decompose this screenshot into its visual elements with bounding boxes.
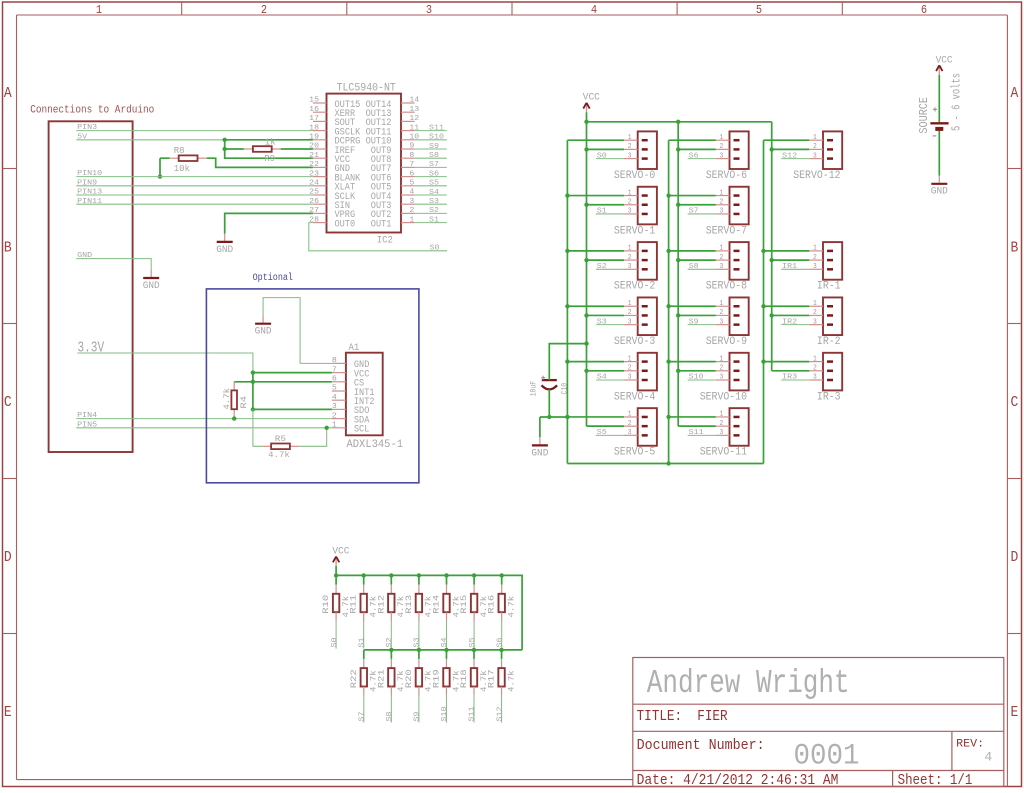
net S11 wire xyxy=(688,434,716,436)
battery SOURCE minus sign xyxy=(933,135,937,137)
SERVO-12 pin 1 stub xyxy=(809,139,823,141)
svg-text:IC2: IC2 xyxy=(377,235,393,246)
svg-text:S9: S9 xyxy=(689,318,699,326)
svg-text:S6: S6 xyxy=(429,170,439,178)
svg-text:6: 6 xyxy=(332,376,337,384)
resistor R5 xyxy=(262,445,271,447)
svg-text:2: 2 xyxy=(813,254,817,262)
resistor R20 xyxy=(418,650,420,659)
junction VCC rail row 3 xyxy=(676,313,680,317)
svg-text:2: 2 xyxy=(628,198,632,206)
IR-1 pin 1 stub xyxy=(809,250,823,252)
svg-text:S4: S4 xyxy=(441,637,449,647)
column 2 pin1 wire row 5 xyxy=(669,416,716,418)
junction VCC rail at R10 xyxy=(334,573,338,577)
net S4 wire xyxy=(596,379,624,381)
svg-text:SERVO-0: SERVO-0 xyxy=(614,170,655,182)
resistor R11 xyxy=(363,575,365,584)
svg-text:OUT0: OUT0 xyxy=(335,218,356,230)
resistor R22 xyxy=(363,650,365,659)
svg-text:4: 4 xyxy=(409,189,414,197)
svg-text:SERVO-12: SERVO-12 xyxy=(793,170,840,182)
net PIN9 wire to IC2 XLAT xyxy=(76,185,313,187)
SERVO-1 pin 1 stub xyxy=(624,195,638,197)
svg-text:16: 16 xyxy=(309,106,319,114)
SERVO-10 pin 3 stub xyxy=(716,379,730,381)
connector SERVO-2 body xyxy=(638,242,657,280)
svg-text:10uF: 10uF xyxy=(528,381,538,397)
wire vertical rail VCC-CS-SDO xyxy=(252,373,254,410)
net S7 wire xyxy=(415,166,447,168)
svg-text:25: 25 xyxy=(309,189,319,197)
svg-text:S10: S10 xyxy=(441,706,449,721)
svg-text:1: 1 xyxy=(628,189,632,197)
junction rail at SDO row xyxy=(251,407,255,411)
IC A1 ADXL345 body xyxy=(346,353,383,436)
column 3 pin2 wire row 3 xyxy=(772,314,810,316)
column 2 pin1 wire row 2 xyxy=(669,250,716,252)
svg-text:R21: R21 xyxy=(377,669,386,688)
SERVO-6 pin 1 contact bar xyxy=(734,139,740,142)
net S0 wire from IC2 OUT0 xyxy=(309,223,447,251)
svg-text:1: 1 xyxy=(813,300,817,308)
IR-3 pin 1 stub xyxy=(809,361,823,363)
net S1 wire xyxy=(596,213,624,215)
net S4 wire xyxy=(415,194,447,196)
IC2 pin 11 (OUT11) stub and number xyxy=(401,130,415,132)
svg-text:SERVO-5: SERVO-5 xyxy=(614,447,655,459)
net S8 wire xyxy=(415,157,447,159)
svg-text:23: 23 xyxy=(309,170,319,178)
svg-text:Connections to Arduino: Connections to Arduino xyxy=(30,105,154,117)
svg-text:GND: GND xyxy=(255,327,272,338)
SERVO-12 pin 2 stub xyxy=(809,148,823,150)
SERVO-1 pin 2 contact bar xyxy=(642,204,648,207)
resistor R10 xyxy=(335,575,337,584)
IC2 pin 24 (XLAT) stub and number xyxy=(313,185,327,187)
connector SERVO-8 body xyxy=(730,242,749,280)
wire 3.3V rail to A1 VCC xyxy=(253,372,332,374)
svg-text:SERVO-10: SERVO-10 xyxy=(700,391,747,403)
junction GND rail row 1 xyxy=(666,193,670,197)
net PIN3 wire to IC2 GSCLK xyxy=(76,130,313,132)
IC2 pin 8 (OUT8) stub and number xyxy=(401,157,415,159)
svg-text:2: 2 xyxy=(720,420,724,428)
svg-text:3: 3 xyxy=(628,374,632,382)
svg-text:R13: R13 xyxy=(405,595,414,614)
connector SERVO-4 body xyxy=(638,353,657,391)
svg-text:20: 20 xyxy=(309,143,319,151)
column 1 pin2 wire row 4 xyxy=(587,370,625,372)
IR-1 pin 1 contact bar xyxy=(827,250,833,253)
SERVO-6 pin 3 contact bar xyxy=(734,157,740,160)
svg-text:SERVO-6: SERVO-6 xyxy=(706,170,747,182)
net 5V wire xyxy=(76,139,224,141)
SERVO-4 pin 2 stub xyxy=(624,370,638,372)
svg-text:D: D xyxy=(1011,548,1019,566)
GND bus along bottom of servo field xyxy=(567,463,763,465)
svg-text:R11: R11 xyxy=(350,595,359,614)
resistor R12 xyxy=(390,575,392,584)
net S2 stub wire xyxy=(390,621,392,648)
junction VCC at column1 rail xyxy=(584,120,588,124)
title block xyxy=(633,658,1004,787)
net S0 wire xyxy=(596,158,624,160)
svg-text:2: 2 xyxy=(813,309,817,317)
svg-text:1: 1 xyxy=(628,411,632,419)
svg-text:VCC: VCC xyxy=(936,54,953,66)
svg-text:18: 18 xyxy=(309,124,319,132)
SERVO-8 pin 2 contact bar xyxy=(734,259,740,262)
net IR1 wire xyxy=(781,268,809,270)
junction VCC rail row 0 xyxy=(584,147,588,151)
junction VCC at column2 rail xyxy=(676,120,680,124)
svg-text:3: 3 xyxy=(720,429,724,437)
junction GND rail row 2 xyxy=(761,249,765,253)
junction rail at VCC row xyxy=(251,370,255,374)
net S11 stub wire xyxy=(473,696,475,723)
svg-text:SERVO-8: SERVO-8 xyxy=(706,281,747,293)
column 1 pin1 wire row 2 xyxy=(567,250,624,252)
SERVO-2 pin 1 contact bar xyxy=(642,250,648,253)
svg-text:S12: S12 xyxy=(782,152,797,160)
svg-text:IR1: IR1 xyxy=(782,263,797,271)
svg-text:Andrew Wright: Andrew Wright xyxy=(647,664,850,702)
connector SERVO-12 body xyxy=(823,131,842,169)
net PIN4 wire to ADXL345 SDA xyxy=(76,418,332,420)
IR-2 pin 2 contact bar xyxy=(827,314,833,317)
junction row2 rail at R17 xyxy=(499,648,503,652)
SERVO-11 pin 2 stub xyxy=(716,425,730,427)
svg-text:3: 3 xyxy=(813,374,817,382)
resistor array top VCC rail xyxy=(336,575,522,650)
SERVO-12 pin 2 contact bar xyxy=(827,148,833,151)
resistor R19 xyxy=(445,650,447,659)
svg-text:1: 1 xyxy=(332,422,337,430)
column 1 VCC rail xyxy=(586,122,588,426)
wire rail to A1 CS xyxy=(234,381,332,383)
SERVO-8 pin 1 stub xyxy=(716,250,730,252)
svg-text:R12: R12 xyxy=(377,595,386,614)
SERVO-11 pin 1 stub xyxy=(716,416,730,418)
column 3 pin2 wire row 0 xyxy=(772,148,810,150)
svg-text:SERVO-2: SERVO-2 xyxy=(614,281,655,293)
svg-text:5 - 6 volts: 5 - 6 volts xyxy=(950,73,964,131)
IR-3 pin 3 contact bar xyxy=(827,379,833,382)
net IR3 wire xyxy=(781,379,809,381)
svg-text:1: 1 xyxy=(720,355,724,363)
IC2 pin 16 (XERR) stub and number xyxy=(313,111,327,113)
junction VCC rail row 0 xyxy=(770,147,774,151)
svg-text:1: 1 xyxy=(813,134,817,142)
battery SOURCE plus sign xyxy=(933,108,937,110)
junction 5V at DCPRG row xyxy=(223,138,227,142)
svg-text:1: 1 xyxy=(813,245,817,253)
svg-text:S7: S7 xyxy=(429,161,439,169)
svg-text:SERVO-4: SERVO-4 xyxy=(614,391,656,403)
SERVO-5 pin 3 contact bar xyxy=(642,434,648,437)
svg-text:B: B xyxy=(1011,239,1019,257)
junction VCC rail row 3 xyxy=(584,313,588,317)
svg-text:R4: R4 xyxy=(240,396,249,409)
column 2 pin2 wire row 3 xyxy=(678,314,716,316)
SERVO-3 pin 2 contact bar xyxy=(642,314,648,317)
svg-text:5: 5 xyxy=(409,180,414,188)
column 2 pin2 wire row 0 xyxy=(678,148,716,150)
SERVO-3 pin 1 stub xyxy=(624,305,638,307)
svg-text:6: 6 xyxy=(409,170,414,178)
svg-text:2: 2 xyxy=(720,254,724,262)
junction row2 rail at R21 xyxy=(389,648,393,652)
svg-text:3: 3 xyxy=(720,318,724,326)
SERVO-9 pin 3 stub xyxy=(716,324,730,326)
IC2 pin 1 (OUT1) stub and number xyxy=(401,222,415,224)
junction VCC rail row 4 xyxy=(676,369,680,373)
svg-text:1: 1 xyxy=(409,216,414,224)
svg-text:E: E xyxy=(4,703,12,721)
svg-text:VCC: VCC xyxy=(583,92,600,104)
resistor R13 xyxy=(418,575,420,584)
svg-text:PIN3: PIN3 xyxy=(77,124,97,132)
SERVO-10 pin 1 contact bar xyxy=(734,360,740,363)
net S4 stub wire xyxy=(446,621,448,648)
SERVO-8 pin 3 contact bar xyxy=(734,268,740,271)
junction C10 on GND wire xyxy=(547,415,551,419)
svg-text:S8: S8 xyxy=(689,263,699,271)
svg-text:1: 1 xyxy=(720,189,724,197)
IR-2 pin 1 stub xyxy=(809,305,823,307)
svg-text:3.3V: 3.3V xyxy=(77,340,104,356)
IR-1 pin 3 stub xyxy=(809,268,823,270)
IC2 pin 15 (OUT15) stub and number xyxy=(313,102,327,104)
svg-text:3: 3 xyxy=(628,152,632,160)
svg-text:GND: GND xyxy=(531,448,548,459)
Arduino connections box xyxy=(49,121,133,452)
net S6 stub wire xyxy=(501,621,503,648)
SERVO-0 pin 2 stub xyxy=(624,148,638,150)
junction GND rail row 5 xyxy=(666,415,670,419)
svg-text:S3: S3 xyxy=(597,318,607,326)
net S2 wire xyxy=(596,268,624,270)
SERVO-6 pin 2 contact bar xyxy=(734,148,740,151)
column 1 pin2 wire row 3 xyxy=(587,314,625,316)
svg-text:S9: S9 xyxy=(429,143,439,151)
svg-text:17: 17 xyxy=(309,115,319,123)
svg-text:2: 2 xyxy=(628,420,632,428)
svg-text:GND: GND xyxy=(143,281,160,292)
svg-text:S0: S0 xyxy=(430,245,440,253)
svg-text:TITLE: FIER: TITLE: FIER xyxy=(637,709,728,725)
capacitor C10 wire to VCC rail xyxy=(549,344,586,381)
svg-text:R16: R16 xyxy=(488,595,497,614)
svg-text:S5: S5 xyxy=(469,637,477,647)
SERVO-11 pin 3 contact bar xyxy=(734,434,740,437)
svg-text:3: 3 xyxy=(720,263,724,271)
net PIN10 wire to IC2 BLANK xyxy=(76,176,313,178)
capacitor C10 wire to GND xyxy=(548,389,550,417)
wire down to ground symbol xyxy=(539,417,541,437)
SERVO-0 pin 2 contact bar xyxy=(642,148,648,151)
svg-text:C10: C10 xyxy=(560,383,570,395)
svg-text:4: 4 xyxy=(984,750,992,765)
svg-text:3: 3 xyxy=(628,263,632,271)
SERVO-0 pin 1 contact bar xyxy=(642,139,648,142)
net S5 wire xyxy=(415,185,447,187)
junction VCC rail at R14 xyxy=(444,573,448,577)
wire ground branch to GND rail xyxy=(540,416,568,418)
SERVO-2 pin 1 stub xyxy=(624,250,638,252)
net S2 wire xyxy=(415,212,447,214)
net S3 wire xyxy=(596,324,624,326)
svg-text:9: 9 xyxy=(409,143,414,151)
svg-text:1: 1 xyxy=(813,355,817,363)
IR-2 pin 2 stub xyxy=(809,314,823,316)
svg-text:S6: S6 xyxy=(496,637,504,647)
net PIN11 wire to IC2 SIN xyxy=(76,203,313,205)
wire R5 to PIN5 net xyxy=(299,428,327,447)
SERVO-3 pin 3 stub xyxy=(624,324,638,326)
resistor R4 xyxy=(233,381,235,390)
junction R4 bottom on PIN4 net xyxy=(232,416,236,420)
SERVO-4 pin 1 contact bar xyxy=(642,360,648,363)
SERVO-5 pin 1 contact bar xyxy=(642,416,648,419)
junction GND branch at rail xyxy=(565,415,569,419)
ground symbol of servo field xyxy=(539,437,541,444)
resistor R9 xyxy=(244,148,253,150)
SERVO-5 pin 1 stub xyxy=(624,416,638,418)
svg-text:R8: R8 xyxy=(174,145,185,156)
SERVO-4 pin 2 contact bar xyxy=(642,370,648,373)
IC2 pin 5 (OUT5) stub and number xyxy=(401,185,415,187)
svg-text:1: 1 xyxy=(720,411,724,419)
net S9 stub wire xyxy=(418,696,420,723)
svg-text:A: A xyxy=(4,84,13,102)
net S3 wire xyxy=(415,203,447,205)
column 2 GND rail xyxy=(668,140,670,463)
IC2 pin 20 (IREF) stub and number xyxy=(313,148,327,150)
svg-text:REV:: REV: xyxy=(956,738,984,750)
svg-text:PIN11: PIN11 xyxy=(77,198,102,206)
IC2 pin 10 (OUT10) stub and number xyxy=(401,139,415,141)
net PIN5 wire to ADXL345 SCL xyxy=(76,427,332,429)
A1 pin 3 (SDO) stub and number xyxy=(332,408,346,410)
wire ADXL345 GND pin to ground xyxy=(263,298,332,364)
column 3 pin1 wire row 0 xyxy=(764,139,810,141)
SERVO-5 pin 2 stub xyxy=(624,425,638,427)
SERVO-11 pin 3 stub xyxy=(716,434,730,436)
SERVO-7 pin 1 stub xyxy=(716,195,730,197)
svg-text:3: 3 xyxy=(813,318,817,326)
svg-text:2: 2 xyxy=(720,365,724,373)
IC2 pin 22 (GND) stub and number xyxy=(313,166,327,168)
svg-text:2: 2 xyxy=(628,143,632,151)
svg-text:PIN9: PIN9 xyxy=(77,179,97,187)
SERVO-9 pin 1 contact bar xyxy=(734,305,740,308)
svg-text:3: 3 xyxy=(628,429,632,437)
junction C10 on VCC rail xyxy=(584,341,588,345)
IR-1 pin 3 contact bar xyxy=(827,268,833,271)
svg-text:GND: GND xyxy=(77,252,92,260)
wire IC2 VPRG to ground xyxy=(225,213,313,233)
svg-text:7: 7 xyxy=(409,161,414,169)
connector SERVO-10 body xyxy=(730,353,749,391)
column 3 pin1 wire row 4 xyxy=(764,361,810,363)
SERVO-6 pin 3 stub xyxy=(716,158,730,160)
svg-text:26: 26 xyxy=(309,198,319,206)
svg-text:SERVO-11: SERVO-11 xyxy=(700,447,748,459)
SERVO-0 pin 3 stub xyxy=(624,158,638,160)
net S3 stub wire xyxy=(418,621,420,648)
IR-2 pin 3 stub xyxy=(809,324,823,326)
svg-text:15: 15 xyxy=(309,97,319,105)
column 3 pin1 wire row 3 xyxy=(764,305,810,307)
resistor R14 xyxy=(446,575,448,584)
SERVO-1 pin 1 contact bar xyxy=(642,194,648,197)
IC2 pin 21 (VCC) stub and number xyxy=(313,157,327,159)
connector SERVO-3 body xyxy=(638,297,657,335)
svg-text:Date: 4/21/2012 2:46:31 AM: Date: 4/21/2012 2:46:31 AM xyxy=(637,773,839,789)
wire R8 left to PIN10 net xyxy=(160,157,170,159)
SERVO-7 pin 2 stub xyxy=(716,204,730,206)
IC2 pin 2 (OUT2) stub and number xyxy=(401,212,415,214)
column 2 pin1 wire row 1 xyxy=(669,195,716,197)
junction VCC rail row 3 xyxy=(770,313,774,317)
svg-text:S6: S6 xyxy=(689,152,699,160)
junction R8 on PIN10 net xyxy=(158,174,162,178)
svg-text:8: 8 xyxy=(332,357,337,365)
svg-text:R5: R5 xyxy=(275,434,286,444)
svg-text:2: 2 xyxy=(628,365,632,373)
svg-text:GND: GND xyxy=(931,187,948,198)
svg-text:3: 3 xyxy=(720,208,724,216)
junction GND rail row 3 xyxy=(565,304,569,308)
svg-text:PIN13: PIN13 xyxy=(77,189,102,197)
column 1 pin2 wire row 5 xyxy=(587,425,625,427)
connector SERVO-7 body xyxy=(730,187,749,225)
net IR2 wire xyxy=(781,324,809,326)
svg-text:SERVO-1: SERVO-1 xyxy=(614,225,656,237)
svg-text:4.7k: 4.7k xyxy=(223,388,232,410)
svg-text:2: 2 xyxy=(720,143,724,151)
SERVO-4 pin 3 stub xyxy=(624,379,638,381)
column 2 pin1 wire row 4 xyxy=(669,361,716,363)
junction GND rail row 5 xyxy=(565,415,569,419)
VCC distribution wire across columns xyxy=(587,121,772,123)
net S11 wire xyxy=(415,130,447,132)
svg-text:1: 1 xyxy=(628,134,632,142)
svg-text:2: 2 xyxy=(813,143,817,151)
svg-text:1: 1 xyxy=(720,245,724,253)
svg-text:SERVO-9: SERVO-9 xyxy=(706,336,747,348)
svg-text:A1: A1 xyxy=(349,343,360,354)
column 3 VCC rail xyxy=(771,122,773,371)
resistor R15 xyxy=(473,575,475,584)
SERVO-7 pin 2 contact bar xyxy=(734,204,740,207)
svg-text:R18: R18 xyxy=(460,669,469,688)
column 3 pin2 wire row 4 xyxy=(772,370,810,372)
svg-text:Sheet: 1/1: Sheet: 1/1 xyxy=(898,773,973,789)
svg-text:PIN10: PIN10 xyxy=(77,170,102,178)
svg-text:2: 2 xyxy=(332,412,337,420)
svg-text:VCC: VCC xyxy=(332,546,349,558)
junction GND rail row 3 xyxy=(666,304,670,308)
svg-text:24: 24 xyxy=(309,180,319,188)
SERVO-8 pin 2 stub xyxy=(716,259,730,261)
junction row2 rail at R19 xyxy=(444,648,448,652)
net S7 wire xyxy=(688,213,716,215)
junction GND bus at column2 rail xyxy=(666,461,670,465)
A1 pin 6 (CS) stub and number xyxy=(332,381,346,383)
